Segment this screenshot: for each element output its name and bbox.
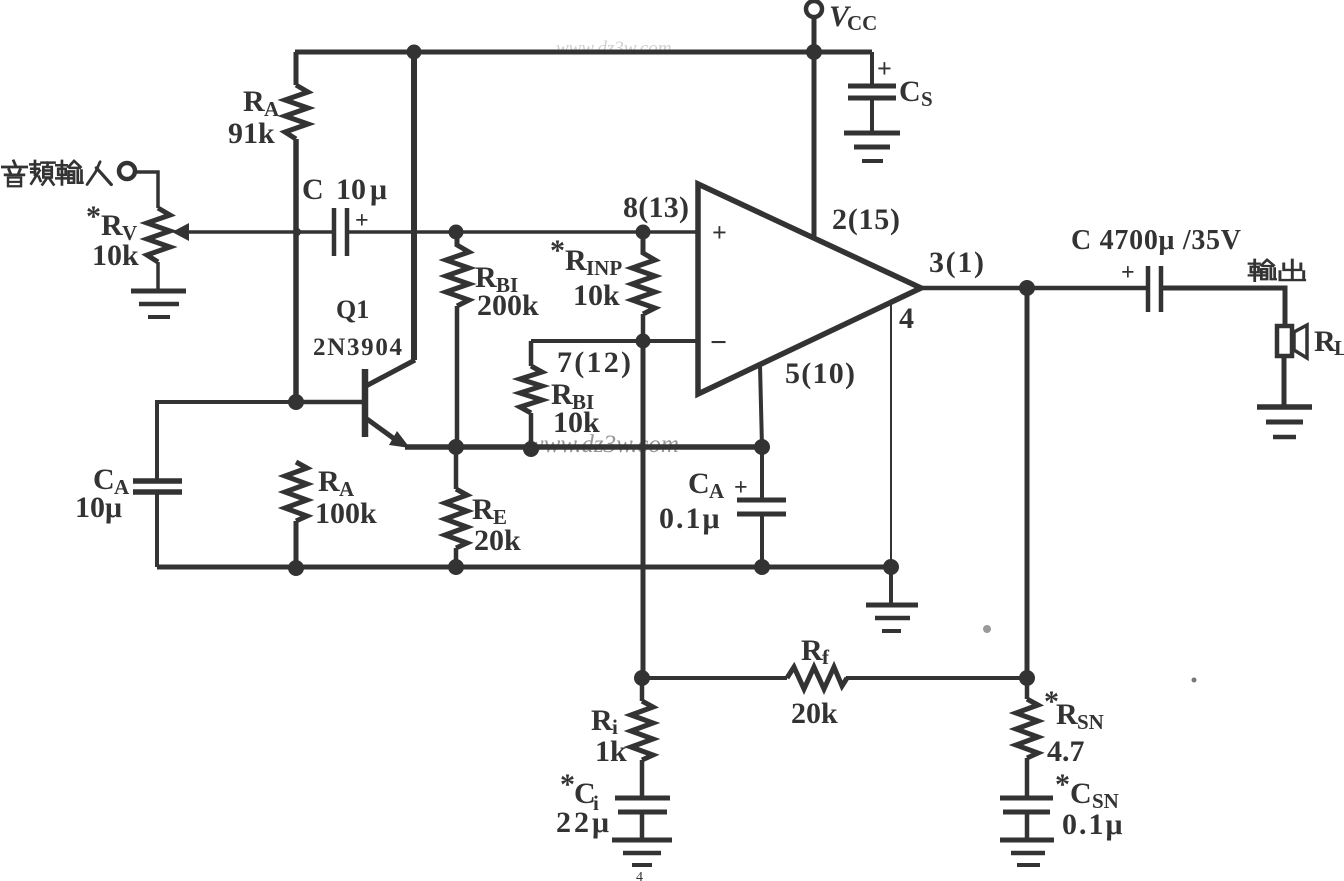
op-amp U1 triangle [698, 184, 921, 394]
svg-text:+: + [877, 54, 892, 83]
svg-text:R: R [565, 244, 587, 277]
svg-text:L: L [1334, 336, 1344, 360]
svg-text:10k: 10k [92, 239, 139, 272]
svg-text:+: + [1121, 260, 1135, 286]
wire: emitter row [405, 444, 763, 450]
ground below CSN [1000, 838, 1054, 843]
node: junction output [1019, 280, 1035, 296]
svg-text:91k: 91k [228, 117, 275, 150]
svg-text:100k: 100k [315, 497, 377, 530]
svg-text:R: R [243, 85, 265, 118]
wire: output row right [1161, 288, 1285, 326]
svg-text:10: 10 [336, 173, 366, 206]
svg-text:10μ: 10μ [75, 491, 122, 524]
svg-text:20k: 20k [474, 524, 521, 557]
wire: base node left and down to CA [157, 402, 296, 479]
node: junction RE top [448, 439, 464, 455]
svg-text:R: R [1056, 698, 1078, 731]
wire: Rf row right [846, 676, 1027, 680]
wire: output row [921, 286, 1147, 291]
wire: inverting node down to Rf node [641, 341, 646, 678]
wire: collector to top rail [411, 52, 417, 360]
svg-text:R: R [101, 209, 123, 242]
resistor RA2 100k [285, 462, 307, 521]
ground below CS [844, 131, 900, 136]
svg-text:+: + [355, 208, 369, 234]
svg-text:3(1): 3(1) [929, 246, 984, 279]
svg-text:R: R [472, 493, 494, 526]
speck artifacts [983, 625, 991, 633]
terminal Vcc circle [806, 1, 822, 17]
wire: pin 5 down to emitter row [760, 365, 762, 447]
svg-text:R: R [591, 704, 613, 737]
wire: CS branch from rail [870, 52, 874, 84]
capacitor Ci 22u [615, 796, 670, 801]
node: junction Vcc / top rail [806, 44, 822, 60]
capacitor C2 4700u [1146, 266, 1151, 312]
svg-text:SN: SN [1077, 710, 1104, 734]
svg-text:www.dz3w.com: www.dz3w.com [556, 38, 671, 59]
svg-text:+: + [734, 475, 748, 501]
svg-text:2(15): 2(15) [832, 203, 900, 236]
ground below Ci [612, 838, 672, 843]
svg-text:R: R [1314, 325, 1336, 358]
svg-text:0.1μ: 0.1μ [659, 502, 722, 535]
node: junction RE / bottom rail [448, 559, 464, 575]
wire: speaker to ground [1282, 356, 1287, 407]
resistor Ri 1k [640, 678, 645, 701]
label 输出 [1249, 260, 1276, 281]
svg-text:7(12): 7(12) [557, 346, 631, 379]
wire: Vcc stem [812, 16, 817, 52]
svg-text:2N3904: 2N3904 [313, 334, 403, 361]
capacitor CSN 0.1u [1000, 796, 1053, 801]
resistor RE 20k [445, 489, 467, 548]
capacitor C 10u coupling [332, 208, 337, 256]
node: junction base [288, 394, 304, 410]
wire: CA bottom to bottom rail [155, 494, 159, 567]
svg-text:1k: 1k [595, 735, 627, 768]
svg-text:10k: 10k [573, 279, 620, 312]
svg-text:*: * [550, 234, 565, 267]
capacitor CA2 0.1u [760, 447, 764, 500]
svg-text:4.7: 4.7 [1047, 735, 1085, 768]
svg-text:*: * [86, 200, 101, 233]
wire: wiper row left segment [186, 230, 332, 234]
wire: top supply rail [295, 50, 872, 55]
wire: RE stems [454, 447, 459, 567]
node: junction RBI 200k top [449, 225, 464, 240]
svg-text:C 4700μ /35V: C 4700μ /35V [1071, 225, 1241, 256]
svg-text:*: * [1055, 768, 1070, 801]
node: small junction at RA line crossing [293, 228, 301, 236]
svg-text:R: R [801, 634, 823, 667]
resistor RINP 10k [632, 232, 655, 314]
node: junction non-inverting input 8(13) [636, 225, 651, 240]
svg-text:A: A [709, 479, 725, 503]
wire: RBI2 bottom to emitter row [529, 413, 534, 447]
svg-text:22μ: 22μ [556, 806, 612, 839]
wire: RBI2 10k corner down [529, 341, 534, 366]
wiper arrow of RV [172, 223, 189, 241]
wire: RA1 branch top [294, 52, 299, 85]
node: junction RA2 / bottom rail [288, 560, 304, 576]
wire: output node down to Rf node [1025, 288, 1030, 678]
potentiometer RV 10k [147, 208, 170, 262]
svg-text:S: S [921, 87, 933, 111]
resistor RBI2 10k [520, 366, 542, 413]
node: junction pin5/CA2 [754, 439, 770, 455]
node: junction CA2 / bottom rail [754, 559, 770, 575]
ground at pin 4 [866, 603, 918, 608]
wire: pot to ground [156, 262, 160, 291]
wire: RA1 bottom to base node [293, 139, 299, 402]
svg-text:8(13): 8(13) [623, 191, 689, 224]
svg-text:200k: 200k [477, 289, 539, 322]
svg-text:C: C [899, 75, 921, 108]
node: junction Rf/RSN [1019, 670, 1035, 686]
capacitor CA 10u [133, 478, 182, 484]
svg-text:+: + [712, 218, 727, 247]
svg-text:4: 4 [899, 302, 914, 335]
wire: Rf row left [643, 676, 787, 680]
resistor Rf 20k [787, 667, 847, 689]
wire: wiper row right segment to op-amp + input [349, 230, 698, 234]
node: junction RBI2 bottom [523, 441, 539, 457]
svg-text:*: * [560, 768, 575, 801]
svg-text:INP: INP [586, 256, 622, 280]
svg-text:Q1: Q1 [336, 295, 369, 324]
svg-text:0.1μ: 0.1μ [1062, 808, 1125, 841]
capacitor CS [848, 84, 896, 89]
wire: stem to ground [889, 567, 893, 604]
speaker RL [1277, 326, 1292, 356]
svg-text:R: R [318, 465, 340, 498]
svg-text:μ: μ [370, 173, 387, 206]
svg-text:f: f [822, 645, 830, 669]
transistor Q1 2N3904 [362, 369, 369, 437]
node: junction collector / top rail [407, 45, 422, 60]
wire: RA2 bottom stem [294, 521, 299, 567]
svg-text:C: C [1070, 777, 1092, 810]
svg-text:5(10): 5(10) [785, 357, 855, 390]
wire: RINP bottom to inverting node [641, 314, 646, 341]
wire: inverting row to op-amp - input [531, 339, 698, 343]
node: junction pin4 / rail end [883, 559, 899, 575]
terminal: input circle [119, 163, 135, 179]
node: junction inverting input [636, 334, 651, 349]
svg-text:10k: 10k [553, 406, 600, 439]
resistor RA 91k [285, 85, 308, 139]
resistor RSN 4.7 [1025, 678, 1030, 699]
wire: RBI 200k bottom to emitter row [455, 306, 460, 447]
svg-text:C: C [688, 467, 710, 500]
wire: input to pot [134, 172, 158, 208]
svg-text:C: C [302, 173, 324, 206]
wire: pin 2 from rail to op-amp top edge [812, 52, 817, 236]
svg-text:−: − [710, 326, 727, 359]
wire: pin 4 down to rail end [890, 305, 892, 567]
wire: bottom rail [157, 565, 891, 570]
svg-text:4: 4 [636, 870, 643, 881]
node: junction Ri/Rf [634, 670, 650, 686]
svg-text:CC: CC [847, 11, 877, 35]
resistor RBI 200k [446, 232, 469, 306]
ground below RV [131, 289, 186, 294]
svg-text:20k: 20k [791, 697, 838, 730]
ground below RL [1257, 404, 1312, 410]
